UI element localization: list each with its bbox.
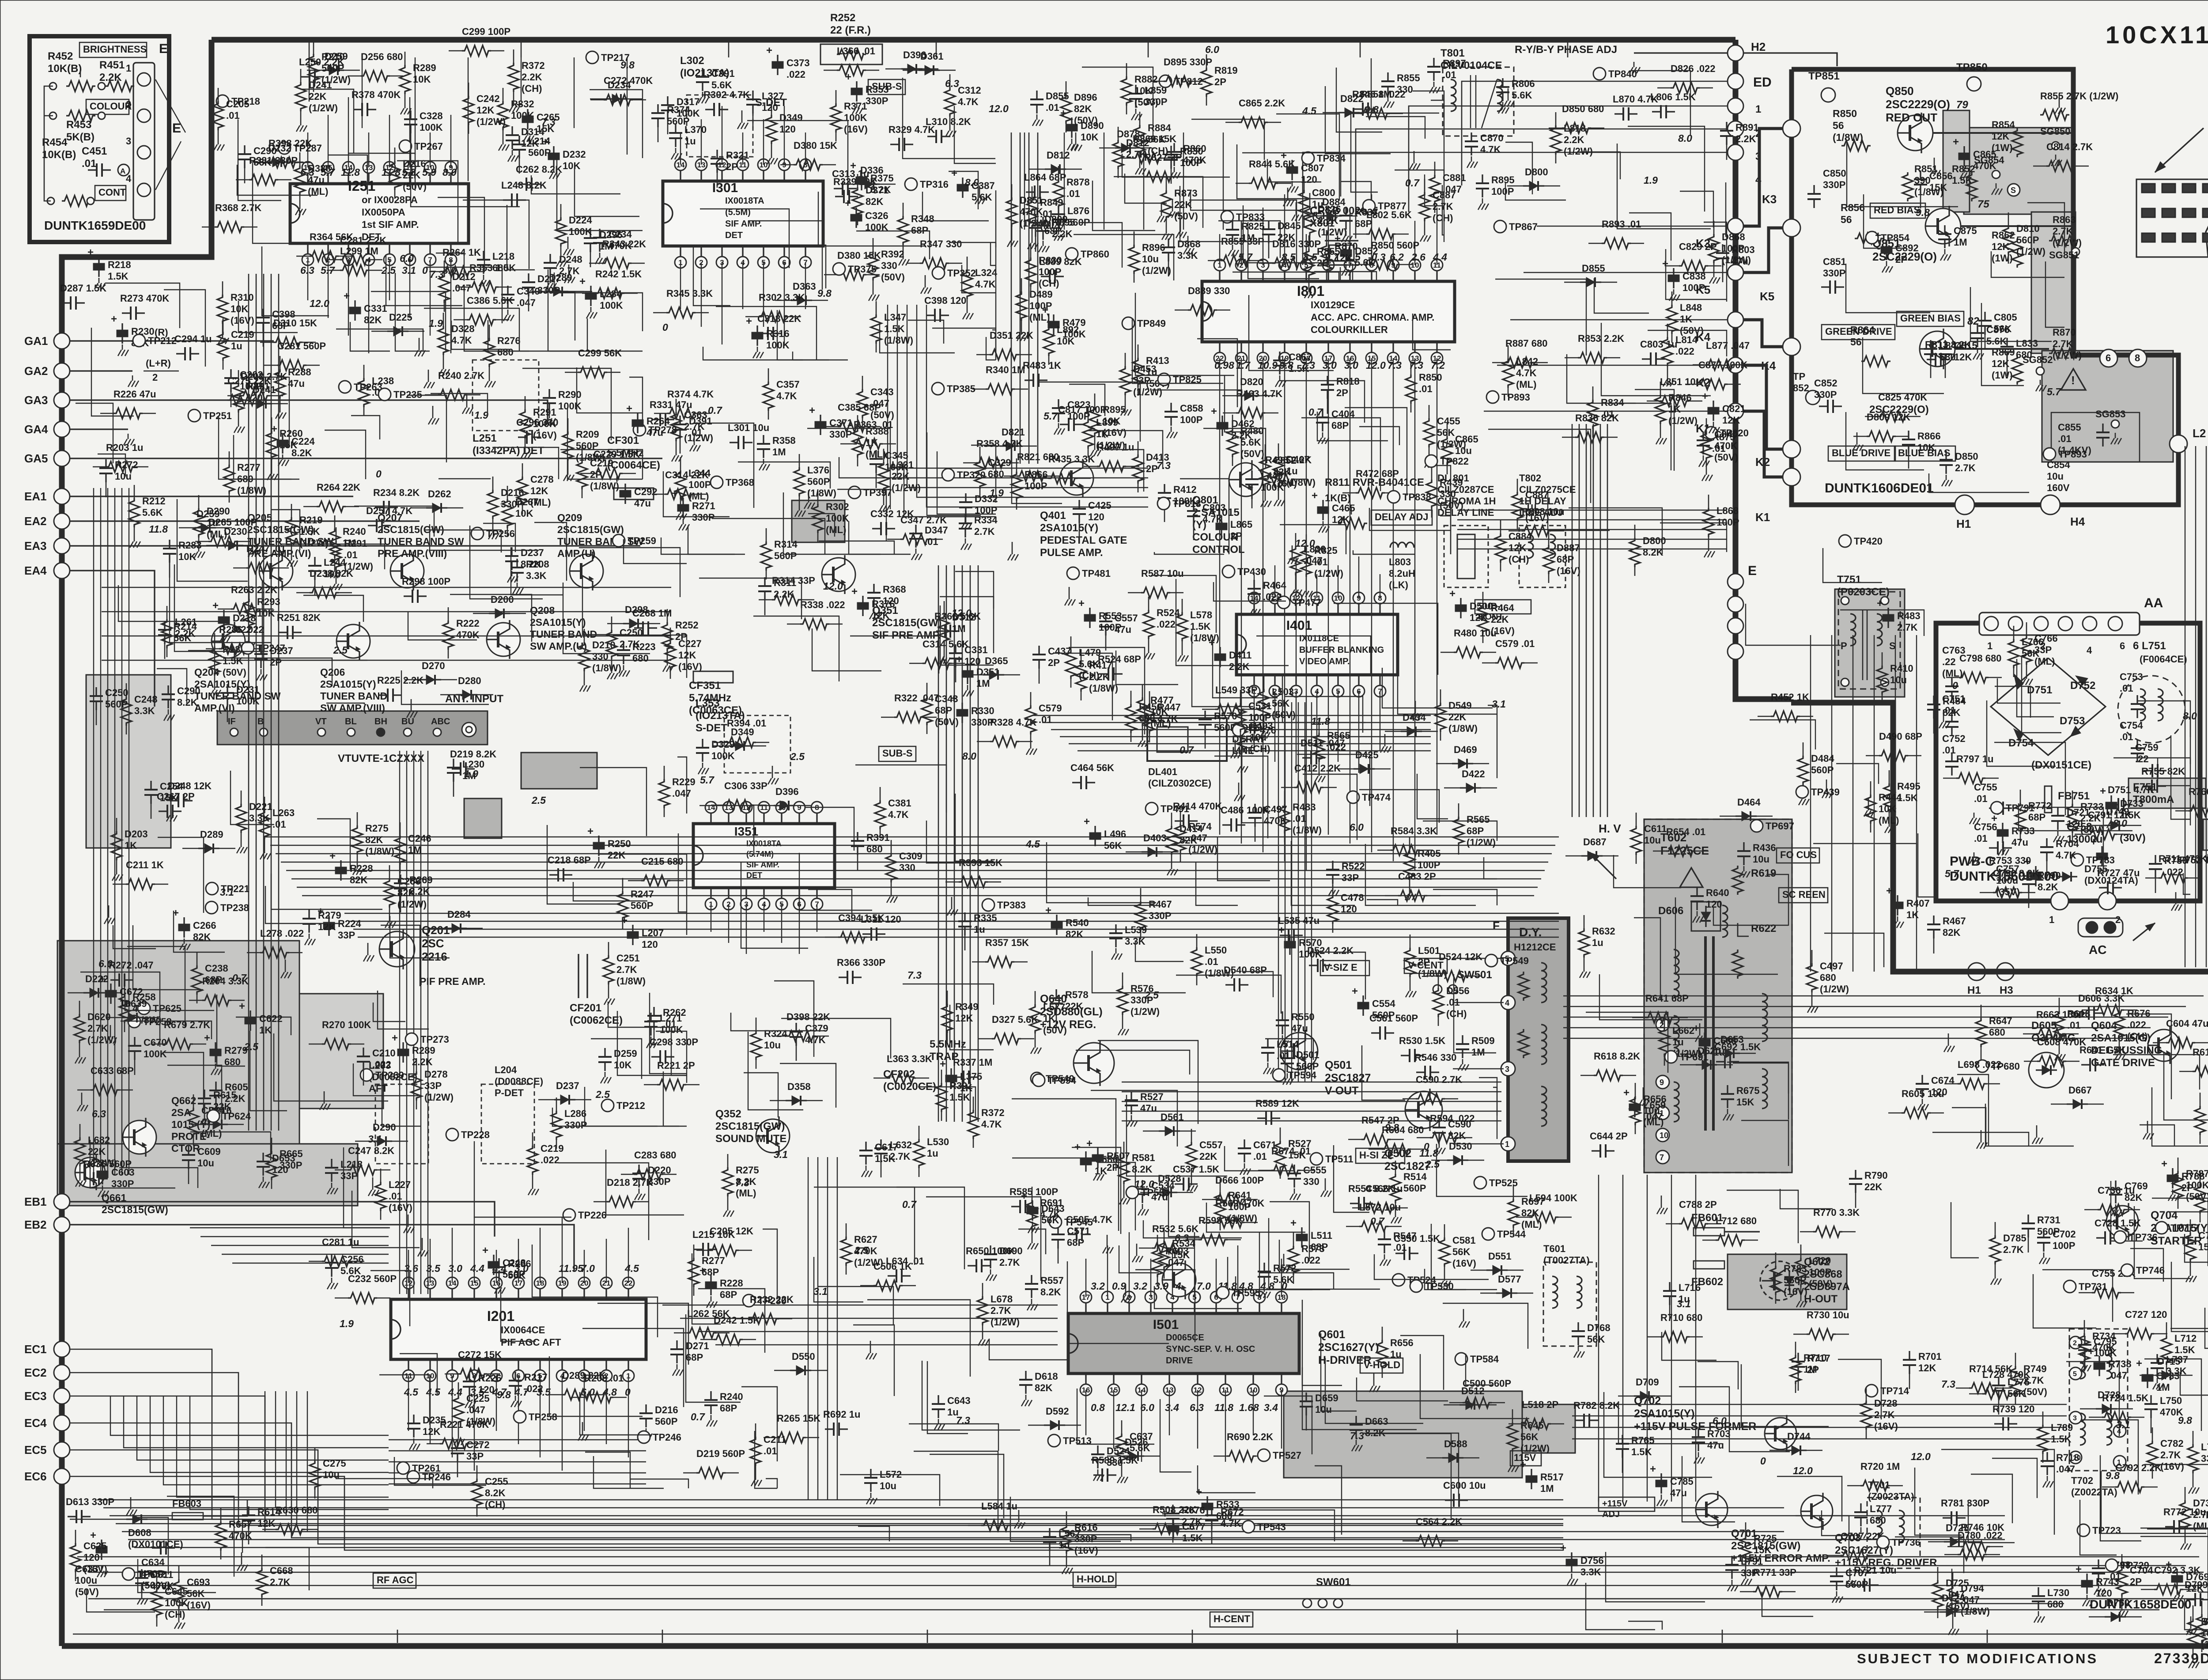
svg-text:7.0: 7.0 [1197, 1280, 1211, 1292]
capacitor C803 [1642, 358, 1651, 359]
wire [1915, 1468, 1962, 1535]
resistor D398 [786, 1031, 816, 1041]
capacitor R605 [215, 1082, 216, 1090]
op-amp I201 PIF AGC AFT IC [391, 1299, 646, 1359]
wire [236, 1017, 291, 1035]
resistor C314 [923, 658, 952, 669]
wire [164, 290, 205, 367]
wire [2140, 1125, 2174, 1146]
svg-text:TP625: TP625 [153, 1003, 181, 1014]
capacitor C391 [702, 68, 703, 77]
svg-text:D4112.2K: D4112.2K [1229, 650, 1251, 672]
wire [580, 1392, 651, 1435]
capacitor C331 [955, 644, 956, 653]
resistor C347 [900, 534, 930, 545]
svg-text:D332100P: D332100P [975, 493, 998, 516]
svg-text:IX0129CE: IX0129CE [1311, 299, 1355, 310]
capacitor R358 [763, 435, 764, 444]
wire [1079, 223, 1122, 268]
resistor R830 [1025, 257, 1036, 287]
svg-text:+: + [212, 600, 219, 612]
svg-text:1: 1 [1755, 103, 1761, 115]
svg-text:C865 2.2K: C865 2.2K [1239, 98, 1285, 109]
resistor R870 [1321, 243, 1332, 272]
svg-text:R604 680: R604 680 [1382, 1124, 1424, 1135]
capacitor R675 [1727, 1085, 1728, 1094]
svg-text:TP439: TP439 [1811, 787, 1840, 798]
capacitor C218 [549, 874, 558, 875]
wire right power horizontals [1563, 995, 2204, 996]
capacitor R692 [825, 1428, 834, 1430]
svg-text:C788 2P: C788 2P [1679, 1199, 1717, 1210]
svg-text:D329100K: D329100K [711, 739, 735, 761]
wire [1454, 974, 1496, 1053]
resistor R858 [1361, 108, 1390, 119]
wire power area verticals [1810, 635, 1811, 972]
wire [1284, 696, 1363, 733]
capacitor R753 [1991, 874, 2000, 876]
svg-text:+: + [845, 197, 851, 209]
capacitor R228 [710, 1275, 711, 1282]
wire [1282, 674, 1365, 723]
svg-text:R721 10u: R721 10u [1854, 1565, 1897, 1576]
svg-text:9.8: 9.8 [817, 288, 832, 299]
svg-text:0.7: 0.7 [1308, 406, 1323, 418]
wire power descending verticals [1598, 1175, 1599, 1502]
wire [1440, 516, 1451, 554]
wire [989, 1339, 1069, 1360]
svg-text:+: + [956, 654, 962, 666]
svg-text:R808 10u: R808 10u [1522, 506, 1565, 517]
resistor L689 [2195, 1106, 2205, 1135]
svg-text:3.2: 3.2 [1133, 1280, 1147, 1292]
test point TP870 [1302, 152, 1314, 164]
wire [350, 322, 390, 351]
wire [2017, 659, 2054, 717]
wire [1382, 668, 1493, 708]
capacitor D219 [452, 768, 461, 769]
capacitor C609 [188, 1146, 189, 1155]
wire [1297, 754, 1370, 806]
capacitor D317 [667, 96, 668, 105]
fuse FB751 [2045, 786, 2052, 813]
wire [2130, 1249, 2163, 1282]
svg-text:10: 10 [1660, 1131, 1668, 1140]
wire [2033, 1274, 2096, 1328]
svg-text:11.8: 11.8 [341, 166, 360, 178]
svg-text:EC1: EC1 [24, 1343, 47, 1356]
resistor R277 [224, 465, 234, 494]
resistor R388 [295, 166, 305, 195]
resistor R622 screen pot [1732, 950, 1743, 979]
svg-text:C829 2P: C829 2P [1679, 241, 1717, 252]
wire [624, 539, 687, 564]
svg-text:R714 56K: R714 56K [1969, 1363, 2013, 1374]
wire [914, 1451, 998, 1529]
svg-text:+: + [1196, 1486, 1202, 1498]
svg-text:L215 10K: L215 10K [692, 1229, 735, 1240]
svg-text:R247 .01: R247 .01 [246, 543, 286, 554]
svg-text:3.2: 3.2 [1091, 1280, 1105, 1292]
resistor L286 [551, 1111, 562, 1140]
wire [158, 837, 204, 913]
diode R547 [1044, 1424, 1065, 1426]
svg-text:12.0: 12.0 [989, 103, 1009, 114]
svg-text:C840470K(50V): C840470K(50V) [1714, 429, 1738, 463]
wire [1729, 1402, 1790, 1452]
capacitor D850 [1945, 451, 1947, 460]
wire [1995, 686, 2030, 718]
resistor R654 [1666, 846, 1695, 856]
svg-text:D270: D270 [422, 660, 445, 671]
test point TP435 [1347, 791, 1359, 803]
svg-text:L584 1u: L584 1u [981, 1501, 1017, 1512]
svg-text:+: + [2100, 785, 2106, 797]
resistor R663 [2036, 1029, 2065, 1039]
svg-text:1.9: 1.9 [1644, 174, 1658, 186]
resistor C363 [671, 412, 681, 441]
wire [807, 428, 890, 509]
wire [1484, 857, 1497, 879]
wire [908, 320, 944, 344]
svg-text:IX0018TA: IX0018TA [725, 196, 764, 206]
test point TP675 [1751, 820, 1763, 832]
DY pins [1501, 951, 1515, 965]
wire [692, 1253, 721, 1324]
svg-text:C298 330P: C298 330P [650, 1037, 698, 1048]
wire [424, 530, 501, 552]
svg-text:C851330P: C851330P [1823, 256, 1846, 279]
svg-text:TP731: TP731 [2079, 1281, 2107, 1292]
svg-text:C3124.7K: C3124.7K [958, 85, 981, 107]
resistor R452 [1771, 711, 1800, 722]
svg-text:R546 330: R546 330 [1414, 1052, 1456, 1063]
resistor R405 [1404, 851, 1415, 880]
svg-text:TP228: TP228 [461, 1129, 490, 1140]
wire [1196, 863, 1238, 905]
resistor R882 [1121, 76, 1132, 106]
resistor R770 [2195, 1184, 2205, 1214]
resistor R674 [1271, 1165, 1301, 1176]
svg-text:TP273: TP273 [420, 1034, 449, 1045]
svg-text:4.4: 4.4 [448, 1386, 462, 1398]
svg-text:L366 .01: L366 .01 [837, 45, 875, 57]
wire bottom inner line [73, 1634, 2208, 1635]
resistor R616 [1061, 1525, 1072, 1554]
capacitor C371 [820, 415, 821, 422]
svg-text:C3814.7K: C3814.7K [888, 798, 911, 820]
wire [451, 321, 510, 349]
svg-text:B: B [257, 717, 264, 726]
resistor R483 [1279, 804, 1290, 833]
svg-text:R830100P: R830100P [1180, 146, 1203, 168]
wire [1154, 552, 1224, 554]
wire [903, 78, 995, 159]
test point TP426 [1796, 786, 1808, 798]
resistor L848 [1667, 305, 1677, 334]
label H-HOLD [1073, 1572, 1116, 1587]
capacitor C328 [410, 110, 411, 119]
wire [170, 554, 271, 643]
transistor Q401 pedestal gate [1060, 462, 1093, 495]
svg-text:TP474: TP474 [1362, 792, 1391, 803]
protector circuit shaded area [57, 941, 299, 1162]
ground [1075, 132, 1077, 140]
capacitor R798 [2098, 1559, 2099, 1568]
svg-text:5.7: 5.7 [700, 774, 715, 786]
resistor R895 [1089, 407, 1100, 436]
wire K column feeds [1537, 226, 1728, 227]
resistor R240 [329, 529, 340, 558]
svg-text:D577: D577 [1498, 1274, 1521, 1285]
ground [1235, 740, 1236, 747]
diode R880 [1523, 185, 1544, 186]
svg-text:R364 56K: R364 56K [310, 231, 353, 242]
diode R238 [420, 679, 441, 680]
capacitor R641 [2081, 1064, 2090, 1065]
wire [781, 1018, 891, 1059]
svg-text:TP595: TP595 [1232, 1287, 1260, 1298]
wire [575, 167, 639, 216]
resistor L584 [981, 1520, 1010, 1531]
wire [381, 925, 420, 986]
resistor R222 [443, 621, 454, 650]
wire [1097, 1162, 1135, 1230]
svg-text:C2558.2K(CH): C2558.2K(CH) [485, 1476, 508, 1510]
ANT input tuner bar [217, 711, 488, 745]
test point TP767 [2064, 1280, 2076, 1293]
wire [231, 771, 274, 825]
svg-text:R-Y/B-Y PHASE ADJ: R-Y/B-Y PHASE ADJ [1515, 44, 1617, 56]
svg-text:D7331.5K: D7331.5K [2120, 798, 2144, 821]
ground [772, 766, 773, 773]
capacitor C398 [926, 314, 935, 316]
resistor R873 [1161, 190, 1172, 219]
capacitor C298 [651, 1056, 660, 1057]
svg-text:+: + [1021, 1190, 1027, 1202]
capacitor D259 [604, 1048, 605, 1057]
resistor C225 [453, 1396, 464, 1425]
capacitor D524 [1309, 965, 1318, 966]
capacitor D890 [1071, 117, 1072, 125]
wire [1413, 314, 1451, 350]
svg-text:D484560P: D484560P [1811, 753, 1834, 776]
capacitor C224 [282, 433, 283, 440]
wire [1077, 1389, 1154, 1444]
svg-text:C332 12K: C332 12K [870, 508, 914, 519]
wire [1067, 1261, 1169, 1343]
wire [573, 882, 647, 901]
svg-text:L262 56K: L262 56K [687, 1308, 730, 1319]
svg-text:R221 470K: R221 470K [440, 1419, 489, 1430]
wire [591, 1039, 642, 1079]
svg-text:FO CUS: FO CUS [1780, 849, 1817, 860]
resistor C329 [975, 460, 985, 489]
wire [1191, 119, 1264, 160]
svg-text:H4: H4 [2070, 515, 2085, 528]
svg-text:R314560P: R314560P [774, 539, 798, 561]
power board PWB-C border [1936, 623, 2200, 901]
wire [1505, 142, 1532, 194]
resistor R463 [1236, 408, 1265, 418]
wire [1741, 1120, 1788, 1166]
svg-text:D820: D820 [1240, 376, 1263, 387]
wire [1660, 523, 1727, 552]
svg-text:1: 1 [1987, 640, 1992, 651]
ground [422, 1238, 423, 1245]
resistor C788 [1679, 1218, 1708, 1229]
wire [1840, 610, 1924, 636]
wire [344, 1147, 390, 1228]
svg-text:R322 .047: R322 .047 [894, 692, 939, 704]
svg-text:R368 2.7K: R368 2.7K [215, 202, 261, 213]
resistor R657 [216, 1521, 226, 1551]
capacitor C672 [110, 984, 111, 991]
resistor R569 [1215, 1217, 1244, 1228]
wire [1279, 381, 1365, 423]
svg-text:R290100K: R290100K [558, 389, 582, 412]
capacitor C318 [759, 333, 768, 334]
capacitor R733 [2002, 823, 2003, 830]
capacitor R517 [1531, 1469, 1532, 1476]
wire [940, 605, 994, 665]
svg-text:L363 3.3K: L363 3.3K [887, 1053, 932, 1064]
capacitor R283 [169, 540, 170, 549]
resistor R357 [985, 957, 1014, 967]
capacitor R533 [1206, 1496, 1208, 1503]
wire [1443, 1303, 1528, 1349]
svg-text:R618 8.2K: R618 8.2K [1594, 1051, 1640, 1062]
svg-text:C281 1u: C281 1u [322, 1237, 359, 1248]
wire [424, 308, 519, 351]
wire [1214, 756, 1268, 838]
svg-text:C412 2.2K: C412 2.2K [1294, 763, 1341, 774]
svg-text:D725: D725 [1946, 1522, 1969, 1533]
svg-text:R630 680: R630 680 [276, 1505, 318, 1516]
wire [1217, 837, 1270, 881]
svg-text:3.0: 3.0 [448, 1263, 462, 1274]
svg-text:4: 4 [1175, 1280, 1181, 1292]
transistor Q209 [570, 554, 603, 588]
wire [837, 489, 886, 541]
capacitor R717 [1797, 1353, 1799, 1362]
svg-text:L2: L2 [2193, 427, 2206, 440]
CRT drive board DUNTK1606DE01 border [1792, 69, 2178, 505]
capacitor D845 [1268, 220, 1269, 229]
diode D606 [1691, 902, 1720, 931]
resistor R887 [1505, 357, 1535, 368]
svg-text:+: + [87, 246, 94, 258]
svg-text:TP867: TP867 [1509, 221, 1538, 232]
resistor R338 [800, 619, 829, 629]
connector E 4-pin [133, 63, 155, 220]
resistor R388 [852, 428, 863, 458]
ground [1136, 1244, 1138, 1251]
svg-text:R855 2.7K (1/2W): R855 2.7K (1/2W) [2040, 91, 2118, 102]
resistor C581 [1439, 1237, 1450, 1267]
resistor R472 [1356, 488, 1385, 498]
svg-text:+: + [940, 1058, 946, 1070]
resistor R240 [438, 390, 467, 400]
capacitor C590 [1438, 1119, 1440, 1128]
wire [748, 1032, 803, 1110]
capacitor R467 [1933, 916, 1934, 924]
capacitor C202 [230, 369, 231, 378]
svg-text:+: + [392, 1032, 398, 1044]
capacitor C234 [599, 229, 600, 238]
svg-text:0: 0 [422, 265, 428, 276]
test point TP544 [1482, 1228, 1494, 1240]
label +115V ADJ [1599, 1497, 1655, 1511]
svg-text:R329 4.7K: R329 4.7K [888, 124, 935, 135]
capacitor R703 [1698, 1428, 1699, 1437]
capacitor C332 [872, 528, 881, 529]
resistor D380 [837, 269, 866, 280]
diode R514 [1159, 1130, 1180, 1131]
resistor R665 [266, 1151, 277, 1180]
resistor L818 [1550, 125, 1561, 155]
resistor L549 [1215, 704, 1244, 715]
svg-text:2.5: 2.5 [381, 265, 396, 276]
svg-text:3.1: 3.1 [774, 1149, 788, 1160]
resistor R394 [727, 737, 756, 748]
test point TP552 [1455, 1353, 1467, 1365]
wire [950, 242, 996, 329]
svg-text:D257 4.7K: D257 4.7K [366, 505, 412, 516]
wire [397, 161, 458, 244]
resistor R364 [310, 251, 339, 261]
capacitor R375 [861, 170, 862, 177]
resistor L324 [962, 270, 972, 299]
svg-text:12.0: 12.0 [1366, 359, 1386, 371]
test point TP893 [1486, 391, 1499, 403]
capacitor R335 [964, 912, 965, 921]
wire [1353, 550, 1414, 554]
warning triangle [2061, 369, 2086, 390]
svg-text:R4805.6K(50V): R4805.6K(50V) [1240, 425, 1264, 459]
svg-text:L311 120: L311 120 [861, 914, 901, 925]
wire [174, 564, 268, 651]
svg-text:+: + [1211, 405, 1217, 417]
capacitor R407 [1897, 895, 1898, 902]
resistor C625 [70, 1543, 81, 1572]
capacitor L876 [1058, 205, 1059, 214]
svg-text:R836 82K: R836 82K [1575, 412, 1619, 424]
capacitor R557 [1031, 1275, 1032, 1284]
svg-text:C272 15K: C272 15K [458, 1349, 502, 1360]
svg-text:R2698.2K: R2698.2K [409, 874, 433, 897]
svg-text:R232 22K: R232 22K [750, 1294, 794, 1305]
resistor C299 [462, 45, 491, 56]
wire [1746, 604, 1841, 645]
wire [849, 521, 911, 554]
wire [303, 595, 363, 622]
resistor R302 [759, 311, 788, 322]
resistor R844 [1249, 178, 1278, 189]
capacitor D852 [1345, 243, 1346, 250]
wire [1237, 144, 1327, 199]
ground [324, 1091, 325, 1098]
capacitor C600 [1445, 1499, 1454, 1501]
op-amp I401 buffer blanking IC [1236, 614, 1398, 675]
capacitor D618 [1025, 1371, 1026, 1380]
wire [585, 1087, 679, 1126]
wire [1092, 951, 1186, 993]
svg-text:D752: D752 [2070, 680, 2095, 692]
test point TP269 [339, 381, 351, 393]
wire [839, 457, 918, 478]
svg-text:3.1: 3.1 [813, 1286, 828, 1297]
